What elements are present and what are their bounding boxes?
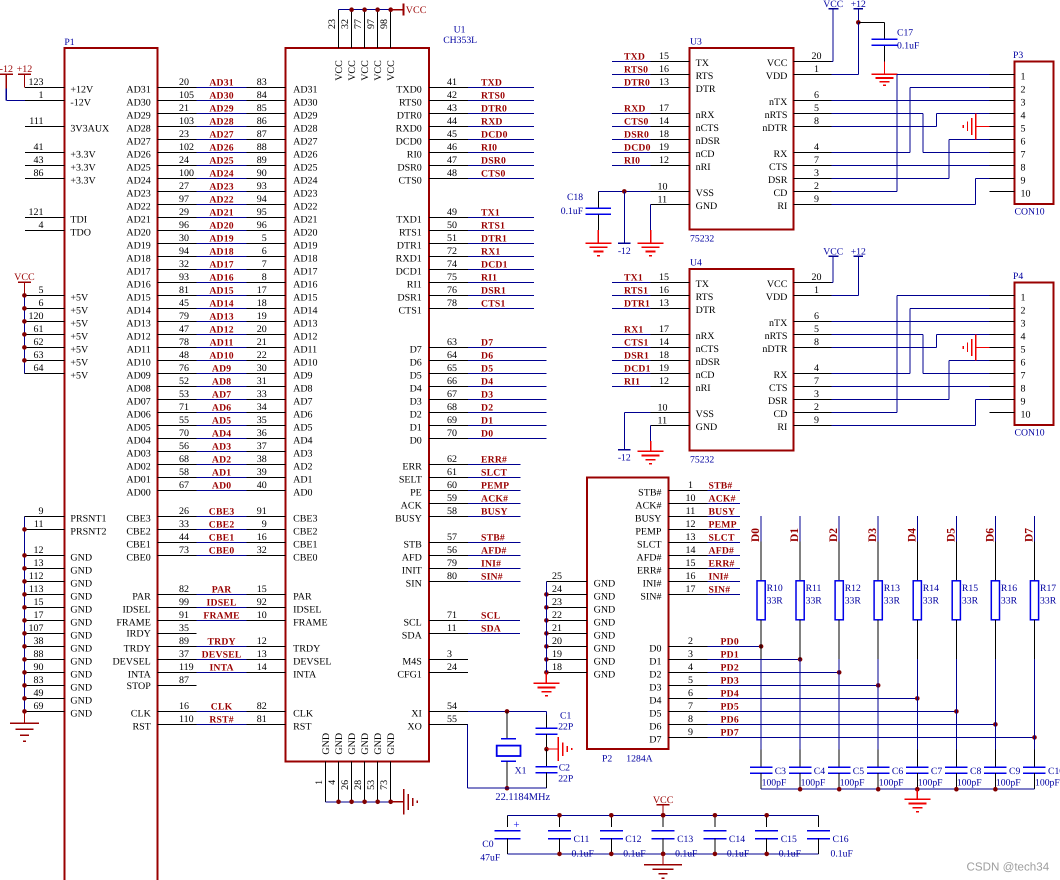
svg-text:C7: C7 xyxy=(931,766,942,777)
svg-text:CTS1: CTS1 xyxy=(398,305,421,316)
svg-text:79: 79 xyxy=(179,311,189,322)
svg-text:ERR#: ERR# xyxy=(637,565,661,576)
svg-text:AD5: AD5 xyxy=(293,422,312,433)
svg-text:30: 30 xyxy=(179,233,189,244)
svg-text:3: 3 xyxy=(447,649,452,660)
svg-text:0.1uF: 0.1uF xyxy=(727,848,750,859)
svg-text:105: 105 xyxy=(179,90,194,101)
svg-text:VSS: VSS xyxy=(696,409,714,420)
svg-text:AD21: AD21 xyxy=(126,214,150,225)
svg-text:AD12: AD12 xyxy=(126,331,150,342)
svg-text:61: 61 xyxy=(447,467,457,478)
svg-text:AD1: AD1 xyxy=(293,474,312,485)
svg-text:-12: -12 xyxy=(0,64,13,75)
svg-text:22P: 22P xyxy=(558,773,573,784)
svg-text:AD31: AD31 xyxy=(126,84,150,95)
svg-text:CBE0: CBE0 xyxy=(126,552,150,563)
svg-text:R12: R12 xyxy=(845,583,861,594)
svg-text:DEVSEL: DEVSEL xyxy=(293,656,331,667)
svg-text:33: 33 xyxy=(179,519,189,530)
svg-text:AD31: AD31 xyxy=(209,78,233,89)
svg-text:GND: GND xyxy=(594,630,616,641)
svg-text:AD17: AD17 xyxy=(126,266,150,277)
svg-text:VCC: VCC xyxy=(767,279,788,290)
svg-text:DSR1: DSR1 xyxy=(397,292,421,303)
svg-text:FRAME: FRAME xyxy=(293,617,327,628)
svg-text:CFG1: CFG1 xyxy=(397,669,421,680)
svg-text:23: 23 xyxy=(179,129,189,140)
svg-text:40: 40 xyxy=(257,480,267,491)
svg-text:C17: C17 xyxy=(897,28,913,39)
svg-text:45: 45 xyxy=(447,129,457,140)
svg-text:AD14: AD14 xyxy=(209,299,233,310)
svg-text:nDSR: nDSR xyxy=(696,357,721,368)
svg-text:GND: GND xyxy=(70,578,92,589)
svg-text:D2: D2 xyxy=(410,409,422,420)
svg-text:RTS: RTS xyxy=(696,71,714,82)
svg-text:88: 88 xyxy=(34,649,44,660)
svg-text:R17: R17 xyxy=(1040,583,1056,594)
svg-text:100pF: 100pF xyxy=(957,778,982,789)
svg-text:PEMP: PEMP xyxy=(481,481,509,492)
svg-text:1: 1 xyxy=(39,90,44,101)
svg-text:89: 89 xyxy=(257,155,267,166)
svg-text:R16: R16 xyxy=(1001,583,1017,594)
svg-text:93: 93 xyxy=(257,181,267,192)
svg-text:AD9: AD9 xyxy=(293,370,312,381)
svg-text:36: 36 xyxy=(257,428,267,439)
svg-text:AD28: AD28 xyxy=(293,123,317,134)
svg-text:110: 110 xyxy=(179,714,194,725)
svg-text:20: 20 xyxy=(812,51,822,62)
svg-text:nDTR: nDTR xyxy=(762,123,787,134)
svg-text:0.1uF: 0.1uF xyxy=(572,848,595,859)
svg-text:PE: PE xyxy=(410,487,422,498)
svg-text:AD31: AD31 xyxy=(293,84,317,95)
svg-text:6: 6 xyxy=(39,298,44,309)
svg-text:VCC: VCC xyxy=(373,60,384,81)
svg-text:2: 2 xyxy=(1021,305,1026,316)
svg-text:AD00: AD00 xyxy=(126,487,150,498)
svg-text:AD27: AD27 xyxy=(126,136,150,147)
svg-text:DEVSEL: DEVSEL xyxy=(112,656,150,667)
svg-text:11: 11 xyxy=(447,623,457,634)
svg-text:1: 1 xyxy=(688,480,693,491)
svg-text:D3: D3 xyxy=(867,528,879,542)
svg-text:DSR: DSR xyxy=(768,396,788,407)
svg-text:9: 9 xyxy=(39,506,44,517)
svg-text:73: 73 xyxy=(379,780,390,790)
svg-text:VDD: VDD xyxy=(766,71,788,82)
svg-text:30: 30 xyxy=(257,363,267,374)
svg-text:R13: R13 xyxy=(884,583,900,594)
svg-text:RTS0: RTS0 xyxy=(624,65,648,76)
svg-text:AD29: AD29 xyxy=(126,110,150,121)
svg-text:RTS0: RTS0 xyxy=(399,97,422,108)
svg-text:37: 37 xyxy=(179,649,189,660)
svg-text:ERR#: ERR# xyxy=(481,455,507,466)
svg-text:STOP: STOP xyxy=(127,681,152,692)
svg-text:89: 89 xyxy=(179,636,189,647)
svg-text:IDSEL: IDSEL xyxy=(207,598,237,609)
svg-text:4: 4 xyxy=(814,142,819,153)
svg-text:6: 6 xyxy=(1021,357,1026,368)
svg-text:STB#: STB# xyxy=(481,533,505,544)
svg-text:AD2: AD2 xyxy=(212,455,231,466)
svg-text:SCL: SCL xyxy=(481,611,501,622)
svg-text:RX1: RX1 xyxy=(624,325,643,336)
svg-text:10: 10 xyxy=(1021,409,1031,420)
svg-text:AD06: AD06 xyxy=(126,409,150,420)
svg-text:VSS: VSS xyxy=(696,188,714,199)
svg-text:RXD: RXD xyxy=(624,104,646,115)
svg-text:RI0: RI0 xyxy=(481,143,497,154)
svg-text:PRSNT1: PRSNT1 xyxy=(70,513,106,524)
svg-text:3: 3 xyxy=(814,389,819,400)
svg-text:D0: D0 xyxy=(410,435,422,446)
svg-text:BUSY: BUSY xyxy=(635,513,662,524)
svg-text:42: 42 xyxy=(447,90,457,101)
svg-text:AD27: AD27 xyxy=(209,130,233,141)
svg-text:102: 102 xyxy=(179,142,194,153)
svg-text:44: 44 xyxy=(447,116,457,127)
svg-text:D4: D4 xyxy=(410,383,422,394)
svg-text:AD11: AD11 xyxy=(293,344,317,355)
svg-text:9: 9 xyxy=(1021,175,1026,186)
svg-text:51: 51 xyxy=(447,233,457,244)
svg-text:AD09: AD09 xyxy=(126,370,150,381)
svg-text:AD23: AD23 xyxy=(126,188,150,199)
svg-text:RTS0: RTS0 xyxy=(481,91,505,102)
svg-text:STB#: STB# xyxy=(638,487,661,498)
svg-text:AD4: AD4 xyxy=(293,435,312,446)
svg-text:DCD1: DCD1 xyxy=(624,364,651,375)
svg-text:60: 60 xyxy=(447,480,457,491)
svg-text:GND: GND xyxy=(594,643,616,654)
svg-text:13: 13 xyxy=(659,298,669,309)
svg-text:INIT: INIT xyxy=(402,565,422,576)
svg-text:12: 12 xyxy=(34,545,44,556)
svg-text:DSR1: DSR1 xyxy=(481,286,506,297)
svg-text:+12: +12 xyxy=(17,64,33,75)
svg-text:3: 3 xyxy=(1021,318,1026,329)
svg-text:nCD: nCD xyxy=(696,149,715,160)
svg-text:13: 13 xyxy=(34,558,44,569)
svg-text:100pF: 100pF xyxy=(918,778,943,789)
svg-text:PRSNT2: PRSNT2 xyxy=(70,526,106,537)
svg-text:C15: C15 xyxy=(781,834,797,845)
svg-text:STB#: STB# xyxy=(709,481,733,492)
svg-text:RI0: RI0 xyxy=(407,149,422,160)
svg-text:PD5: PD5 xyxy=(721,702,739,713)
svg-text:GND: GND xyxy=(594,656,616,667)
svg-text:4: 4 xyxy=(39,220,44,231)
svg-text:49: 49 xyxy=(447,207,457,218)
svg-text:+5V: +5V xyxy=(70,370,89,381)
svg-text:FRAME: FRAME xyxy=(116,617,150,628)
svg-text:D4: D4 xyxy=(649,695,661,706)
svg-text:CLK: CLK xyxy=(131,708,152,719)
svg-text:GND: GND xyxy=(334,733,345,755)
svg-text:D2: D2 xyxy=(649,669,661,680)
svg-text:121: 121 xyxy=(29,207,44,218)
svg-text:AD30: AD30 xyxy=(126,97,150,108)
svg-text:BUSY: BUSY xyxy=(709,507,736,518)
svg-text:D4: D4 xyxy=(906,528,918,542)
svg-text:63: 63 xyxy=(34,350,44,361)
svg-text:83: 83 xyxy=(34,675,44,686)
svg-text:21: 21 xyxy=(552,623,562,634)
svg-text:CBE1: CBE1 xyxy=(293,539,317,550)
svg-text:69: 69 xyxy=(447,415,457,426)
svg-text:DTR1: DTR1 xyxy=(397,240,422,251)
svg-text:12: 12 xyxy=(659,376,669,387)
svg-text:AD12: AD12 xyxy=(293,331,317,342)
svg-text:77: 77 xyxy=(353,19,364,29)
svg-text:23: 23 xyxy=(552,597,562,608)
svg-text:19: 19 xyxy=(659,363,669,374)
svg-text:DCD1: DCD1 xyxy=(481,260,508,271)
svg-text:32: 32 xyxy=(340,19,351,29)
svg-text:PAR: PAR xyxy=(132,591,151,602)
svg-text:10: 10 xyxy=(658,181,668,192)
svg-text:46: 46 xyxy=(447,142,457,153)
svg-text:11: 11 xyxy=(686,506,696,517)
svg-text:48: 48 xyxy=(179,350,189,361)
svg-text:CBE1: CBE1 xyxy=(126,539,150,550)
svg-text:GND: GND xyxy=(70,695,92,706)
svg-text:RI0: RI0 xyxy=(624,156,640,167)
svg-text:88: 88 xyxy=(257,142,267,153)
svg-text:AD29: AD29 xyxy=(293,110,317,121)
svg-text:AD19: AD19 xyxy=(293,240,317,251)
svg-text:26: 26 xyxy=(179,506,189,517)
svg-text:D7: D7 xyxy=(1024,528,1036,542)
svg-text:7: 7 xyxy=(688,701,693,712)
svg-text:13: 13 xyxy=(686,532,696,543)
svg-text:AD15: AD15 xyxy=(293,292,317,303)
svg-text:TRDY: TRDY xyxy=(207,637,235,648)
svg-text:97: 97 xyxy=(179,194,189,205)
svg-text:100pF: 100pF xyxy=(996,778,1021,789)
svg-text:58: 58 xyxy=(179,467,189,478)
svg-text:D4: D4 xyxy=(481,377,493,388)
svg-text:33R: 33R xyxy=(962,595,979,606)
svg-text:CTS0: CTS0 xyxy=(481,169,506,180)
svg-text:AD3: AD3 xyxy=(212,442,231,453)
svg-text:AD18: AD18 xyxy=(209,247,233,258)
svg-text:-12V: -12V xyxy=(70,97,91,108)
svg-text:nTX: nTX xyxy=(769,97,788,108)
svg-text:62: 62 xyxy=(34,337,44,348)
svg-text:D1: D1 xyxy=(410,422,422,433)
svg-text:13: 13 xyxy=(659,77,669,88)
svg-text:D0: D0 xyxy=(481,429,493,440)
svg-text:AD5: AD5 xyxy=(212,416,231,427)
svg-text:10: 10 xyxy=(257,610,267,621)
svg-text:SELT: SELT xyxy=(399,474,422,485)
svg-text:SIN#: SIN# xyxy=(709,585,731,596)
svg-text:12: 12 xyxy=(659,155,669,166)
svg-text:120: 120 xyxy=(29,311,44,322)
svg-text:AD19: AD19 xyxy=(126,240,150,251)
svg-text:AD3: AD3 xyxy=(293,448,312,459)
svg-text:CTS1: CTS1 xyxy=(481,299,506,310)
svg-text:nRTS: nRTS xyxy=(765,110,788,121)
svg-text:AD22: AD22 xyxy=(293,201,317,212)
svg-text:53: 53 xyxy=(366,780,377,790)
svg-text:78: 78 xyxy=(447,298,457,309)
svg-text:C16: C16 xyxy=(833,834,849,845)
svg-text:33R: 33R xyxy=(767,595,784,606)
svg-text:22.1184MHz: 22.1184MHz xyxy=(495,792,550,803)
svg-text:GND: GND xyxy=(70,708,92,719)
svg-text:AD13: AD13 xyxy=(126,318,150,329)
svg-text:RXD: RXD xyxy=(481,117,503,128)
svg-text:DSR0: DSR0 xyxy=(481,156,506,167)
svg-text:0.1uF: 0.1uF xyxy=(561,206,584,217)
svg-text:7: 7 xyxy=(1021,370,1026,381)
svg-text:D6: D6 xyxy=(481,351,493,362)
svg-text:BUSY: BUSY xyxy=(481,507,508,518)
svg-text:8: 8 xyxy=(814,337,819,348)
svg-text:VCC: VCC xyxy=(386,60,397,81)
svg-text:59: 59 xyxy=(447,493,457,504)
svg-text:AD20: AD20 xyxy=(293,227,317,238)
svg-text:10: 10 xyxy=(686,493,696,504)
svg-text:AD24: AD24 xyxy=(293,175,317,186)
svg-text:74: 74 xyxy=(447,259,457,270)
svg-text:DCD0: DCD0 xyxy=(624,143,651,154)
svg-text:43: 43 xyxy=(34,155,44,166)
svg-text:17: 17 xyxy=(659,103,669,114)
svg-text:+: + xyxy=(513,819,519,831)
svg-text:C13: C13 xyxy=(677,834,693,845)
svg-text:9: 9 xyxy=(262,519,267,530)
svg-text:RTS1: RTS1 xyxy=(399,227,422,238)
svg-text:52: 52 xyxy=(179,376,189,387)
svg-text:39: 39 xyxy=(257,467,267,478)
svg-text:38: 38 xyxy=(257,454,267,465)
svg-text:6: 6 xyxy=(814,90,819,101)
svg-text:111: 111 xyxy=(29,116,43,127)
svg-text:DTR0: DTR0 xyxy=(481,104,507,115)
svg-text:PAR: PAR xyxy=(212,585,233,596)
svg-text:14: 14 xyxy=(257,662,267,673)
svg-text:AD02: AD02 xyxy=(126,461,150,472)
svg-text:-12: -12 xyxy=(618,246,631,257)
svg-text:AD25: AD25 xyxy=(209,156,233,167)
svg-text:TRDY: TRDY xyxy=(293,643,320,654)
svg-text:18: 18 xyxy=(659,350,669,361)
svg-text:65: 65 xyxy=(447,363,457,374)
svg-text:RX: RX xyxy=(773,370,788,381)
svg-text:RTS: RTS xyxy=(696,292,714,303)
svg-text:13: 13 xyxy=(257,649,267,660)
svg-text:R14: R14 xyxy=(923,583,939,594)
svg-text:11: 11 xyxy=(34,519,44,530)
svg-text:FRAME: FRAME xyxy=(203,611,240,622)
svg-text:ERR: ERR xyxy=(402,461,422,472)
svg-text:AD17: AD17 xyxy=(209,260,233,271)
svg-text:D5: D5 xyxy=(945,528,957,542)
svg-text:ERR#: ERR# xyxy=(709,559,735,570)
svg-text:SLCT: SLCT xyxy=(637,539,661,550)
svg-text:RI1: RI1 xyxy=(481,273,497,284)
svg-text:32: 32 xyxy=(257,545,267,556)
svg-text:GND: GND xyxy=(386,733,397,755)
svg-text:11: 11 xyxy=(658,194,668,205)
svg-text:100pF: 100pF xyxy=(1035,778,1060,789)
svg-text:16: 16 xyxy=(659,64,669,75)
svg-text:3: 3 xyxy=(814,168,819,179)
svg-text:DTR0: DTR0 xyxy=(624,78,650,89)
svg-text:AD9: AD9 xyxy=(212,364,231,375)
svg-text:R10: R10 xyxy=(767,583,783,594)
svg-text:1: 1 xyxy=(814,64,819,75)
svg-text:C0: C0 xyxy=(482,839,493,850)
svg-text:103: 103 xyxy=(179,116,194,127)
svg-text:43: 43 xyxy=(447,103,457,114)
svg-text:VCC: VCC xyxy=(406,5,427,16)
svg-text:31: 31 xyxy=(257,376,267,387)
svg-text:18: 18 xyxy=(552,662,562,673)
svg-text:20: 20 xyxy=(257,324,267,335)
svg-text:+3.3V: +3.3V xyxy=(70,149,96,160)
svg-text:D1: D1 xyxy=(789,528,801,542)
svg-text:AD25: AD25 xyxy=(126,162,150,173)
svg-text:75: 75 xyxy=(447,272,457,283)
svg-text:62: 62 xyxy=(447,454,457,465)
svg-text:C4: C4 xyxy=(814,766,825,777)
svg-text:AD26: AD26 xyxy=(209,143,233,154)
svg-text:113: 113 xyxy=(29,584,44,595)
svg-text:14: 14 xyxy=(686,545,696,556)
svg-text:9: 9 xyxy=(1021,396,1026,407)
svg-text:56: 56 xyxy=(179,441,189,452)
svg-text:4: 4 xyxy=(814,363,819,374)
svg-text:AD22: AD22 xyxy=(126,201,150,212)
svg-text:69: 69 xyxy=(34,701,44,712)
svg-text:AD20: AD20 xyxy=(209,221,233,232)
svg-text:64: 64 xyxy=(34,363,44,374)
svg-text:2: 2 xyxy=(1021,84,1026,95)
svg-text:+5V: +5V xyxy=(70,357,89,368)
svg-text:VCC: VCC xyxy=(360,60,371,81)
svg-text:CD: CD xyxy=(773,188,787,199)
svg-text:GND: GND xyxy=(594,669,616,680)
svg-text:AD15: AD15 xyxy=(126,292,150,303)
svg-text:nDSR: nDSR xyxy=(696,136,721,147)
svg-text:GND: GND xyxy=(70,552,92,563)
svg-text:C10: C10 xyxy=(1048,766,1060,777)
svg-text:95: 95 xyxy=(257,207,267,218)
svg-text:100pF: 100pF xyxy=(801,778,826,789)
svg-text:PD3: PD3 xyxy=(721,676,739,687)
svg-text:9: 9 xyxy=(814,194,819,205)
svg-text:U3: U3 xyxy=(690,37,702,48)
svg-text:82: 82 xyxy=(257,701,267,712)
svg-text:GND: GND xyxy=(70,565,92,576)
svg-text:GND: GND xyxy=(70,682,92,693)
svg-text:49: 49 xyxy=(34,688,44,699)
svg-text:AD14: AD14 xyxy=(293,305,317,316)
svg-text:C8: C8 xyxy=(970,766,981,777)
svg-text:84: 84 xyxy=(257,90,267,101)
svg-text:PEMP: PEMP xyxy=(709,520,737,531)
svg-text:19: 19 xyxy=(659,142,669,153)
svg-text:AD20: AD20 xyxy=(126,227,150,238)
